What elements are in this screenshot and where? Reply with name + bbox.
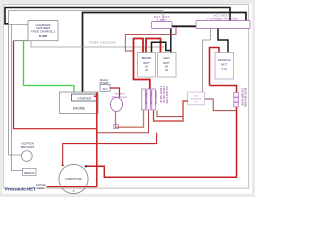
svg-text:STARTER: STARTER	[77, 96, 92, 100]
svg-text:1 BATT SW 40: 1 BATT SW 40	[159, 86, 162, 103]
svg-text:40 AMP: 40 AMP	[39, 35, 48, 38]
battery BAT2	[158, 53, 177, 78]
wire: red house load line	[47, 186, 97, 188]
page background	[0, 0, 255, 197]
wire: maroon switch to starter bus	[97, 111, 149, 133]
svg-text:GRAY: GRAY	[163, 57, 170, 60]
wire: gray charger to remote panel	[12, 25, 24, 171]
svg-text:ACC: ACC	[194, 94, 199, 97]
engine block	[60, 92, 99, 114]
wire: salmon service loop	[116, 110, 144, 127]
wire: black battery negative link	[152, 29, 171, 53]
svg-text:HOUSE: HOUSE	[36, 183, 45, 187]
svg-text:3 BATT 12V: 3 BATT 12V	[154, 91, 157, 105]
wire: charger bottom stub	[14, 40, 29, 42]
acc block	[188, 92, 205, 105]
shunt meter circle	[21, 151, 32, 162]
svg-text:ALT: ALT	[103, 87, 108, 91]
connector	[114, 125, 119, 129]
wire: gray bus to bat box sense	[9, 11, 164, 22]
svg-text:1/2/BOTH/OFF: 1/2/BOTH/OFF	[65, 178, 82, 181]
starter M1	[72, 94, 98, 101]
wire: gray temp sensor lead	[31, 41, 164, 47]
wire: gray link into charger left	[9, 24, 28, 26]
node term2	[85, 165, 87, 167]
battery RESERVE	[215, 53, 234, 80]
wire: maroon terminal bar to battery	[125, 27, 176, 51]
svg-text:BROWN: BROWN	[142, 57, 152, 60]
svg-text:RESERVE: RESERVE	[218, 58, 231, 62]
wire: gray terminal bar to acc block	[203, 29, 211, 93]
svg-text:150 AMP FUSE: 150 AMP FUSE	[240, 88, 243, 106]
wire: black negative loop B (engine ground to terminal bar)	[83, 13, 247, 93]
svg-text:FUSE BLK: FUSE BLK	[191, 98, 202, 100]
svg-text:# 24: # 24	[222, 67, 228, 71]
border frame	[3, 4, 249, 188]
wire: red charger positive feed	[14, 41, 97, 129]
wire: black terminal bar to reserve battery	[218, 29, 228, 53]
wire: dark red acc to fuse	[205, 99, 237, 111]
wire: red house main (switch to fuse and reserve)	[86, 86, 237, 178]
service disconnect SW	[111, 98, 123, 112]
svg-text:BMV-602S: BMV-602S	[21, 145, 35, 149]
battery BAT1	[138, 53, 156, 78]
svg-text:Pressauto.NET: Pressauto.NET	[5, 187, 36, 192]
black terminal bus bar	[172, 25, 196, 27]
svg-text:12V: 12V	[194, 101, 198, 103]
svg-text:LOAD: LOAD	[37, 186, 44, 190]
wire: gray charger sense to victron shunt	[9, 11, 22, 156]
svg-text:ENGINE: ENGINE	[73, 107, 85, 111]
wire: red selector to switch	[63, 133, 157, 165]
svg-text:BLUE SEA 5005: BLUE SEA 5005	[244, 88, 247, 107]
node term1	[62, 164, 64, 166]
wire: red switch common out	[154, 101, 189, 121]
svg-text:REMOTE: REMOTE	[24, 172, 35, 175]
svg-text:BATT: BATT	[221, 63, 228, 67]
charger U1	[28, 21, 58, 41]
wire: red alternator output	[110, 88, 120, 98]
svg-text:1 BATT 12V: 1 BATT 12V	[144, 91, 147, 105]
outer margin band	[0, 0, 255, 197]
selector switch 1/2/BOTH/OFF	[59, 164, 88, 193]
wire: red starter feed down	[94, 93, 97, 187]
svg-text:TRUE CHARGE 2: TRUE CHARGE 2	[31, 30, 56, 34]
wire: red battery jumper	[146, 39, 161, 53]
battery switch S1	[142, 89, 156, 110]
svg-text:2 BATT 12V: 2 BATT 12V	[149, 91, 152, 105]
wire: red main battery feed to switch	[134, 39, 150, 90]
node term base	[73, 190, 75, 192]
wire: black negative bus loop A (top)	[5, 8, 230, 26]
svg-text:ALL BATT OFF: ALL BATT OFF	[165, 86, 168, 104]
remote panel	[23, 169, 37, 176]
wire: red reserve battery feed	[210, 48, 220, 86]
alternator ALT	[100, 85, 110, 92]
svg-text:TEMP SENSOR: TEMP SENSOR	[89, 41, 116, 45]
wire: dark red switch to acc	[157, 111, 183, 117]
fuse F1 150A	[234, 93, 239, 107]
wire: green charger ground to engine	[24, 41, 75, 92]
svg-text:2 BATT SW 40: 2 BATT SW 40	[162, 86, 165, 103]
